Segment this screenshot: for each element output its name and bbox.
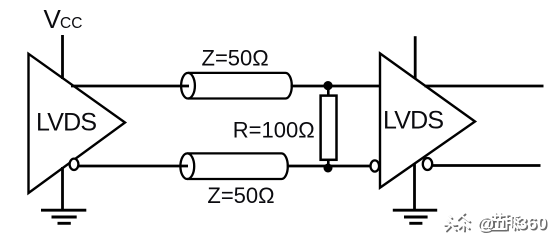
svg-text:Z=50Ω: Z=50Ω [202, 46, 269, 71]
svg-text:LVDS: LVDS [36, 109, 96, 137]
junction node bottom [324, 164, 333, 173]
inverting output bubble of U2 on lower slope [423, 158, 432, 170]
transmission line Z=50 ohm (top coax) [181, 73, 292, 99]
label Z=50 ohm (top) [202, 46, 269, 71]
ground wire from U1 lower slope [61, 167, 64, 210]
power VCC label [44, 4, 83, 34]
watermark (decorative) [444, 213, 548, 235]
ground (left) [41, 210, 86, 223]
op-amp U1 LVDS driver triangle [29, 54, 126, 193]
wire U1 inverting output to bottom transmission line [78, 165, 188, 168]
svg-text:CC: CC [60, 15, 82, 32]
inverting output bubble of U1 [70, 159, 79, 170]
svg-text:360: 360 [518, 213, 547, 233]
wire U2 upper pin (vertical, unlabeled supply) [414, 36, 417, 79]
wire resistor to junction (bottom stub) [327, 159, 330, 168]
resistor R=100 ohm [321, 96, 337, 160]
wire U2 top output to right [425, 85, 544, 88]
svg-text:R=100Ω: R=100Ω [233, 118, 315, 143]
wire U2 inverting output to right [432, 164, 540, 167]
ground (right) [393, 210, 437, 223]
svg-text:V: V [44, 4, 62, 34]
wire VCC to driver upper slope [61, 35, 64, 79]
label Z=50 ohm (bottom) [207, 183, 274, 208]
wire bottom coax to receiver input bubble [287, 165, 371, 168]
junction node top [323, 81, 332, 90]
wire top coax to receiver [291, 85, 380, 88]
inverting input bubble of U2 [371, 160, 380, 171]
wire U1 top output to transmission line [71, 85, 189, 88]
transmission line Z=50 ohm (bottom coax) [180, 153, 287, 179]
svg-text:@: @ [477, 213, 494, 233]
svg-text:Z=50Ω: Z=50Ω [207, 183, 274, 208]
op-amp U2 LVDS receiver triangle [380, 53, 475, 187]
svg-text:LVDS: LVDS [383, 106, 443, 134]
ground wire from U2 lower slope [413, 164, 416, 210]
wire junction to resistor (top stub) [327, 86, 330, 96]
label R=100 ohm [233, 118, 315, 143]
